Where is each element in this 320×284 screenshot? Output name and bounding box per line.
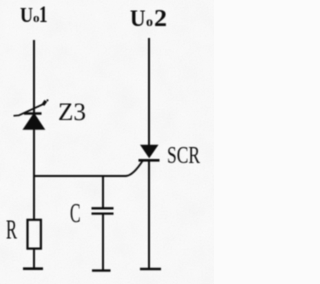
terminal bar right [140,268,161,271]
wire resistor to terminal [33,249,35,270]
svg-text:2: 2 [154,6,167,32]
wire left vertical top (Uo1 to zener) [33,40,35,113]
label Z3 [58,99,86,126]
svg-text:U: U [20,3,33,27]
capacitor C [92,208,114,213]
wire right vertical top (Uo2 to SCR) [148,38,150,145]
svg-text:SCR: SCR [167,143,200,169]
wire capacitor branch vertical [102,176,104,208]
svg-text:R: R [6,215,17,245]
svg-text:1: 1 [39,2,48,27]
svg-text:U: U [130,6,146,31]
wire left vertical (junction to resistor) [33,176,35,220]
label SCR [167,143,200,169]
terminal bar left [23,267,43,270]
wire right vertical (SCR to terminal) [148,160,150,269]
label C [70,198,81,228]
wire left vertical (zener to junction) [33,129,35,177]
svg-text:Z3: Z3 [58,99,86,126]
node junction / horizontal wire to gate [33,161,143,177]
label Uo1 [20,2,48,27]
label Uo2 [130,6,167,32]
wire capacitor to terminal [102,214,104,271]
svg-text:o: o [146,15,153,30]
resistor R [28,220,41,249]
thyristor SCR [139,145,160,161]
svg-text:C: C [70,198,81,228]
terminal bar middle [92,269,111,271]
zener diode Z3 [14,99,49,129]
paper noise [0,0,214,284]
label R [6,215,17,245]
